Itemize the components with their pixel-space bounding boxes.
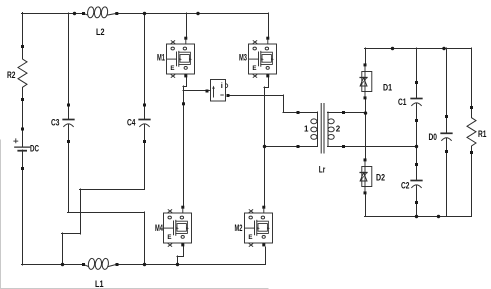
- wire D1 anode from output rail: [365, 48, 367, 65]
- node junction dot right leg at primary bottom: [263, 145, 266, 148]
- inductor L2: [82, 6, 118, 37]
- node junction dot output top rail right: [442, 47, 445, 50]
- transformer Lr: [297, 104, 346, 175]
- wire C4 bottom branch across: [80, 189, 145, 191]
- wire M4 source jog: [177, 256, 184, 258]
- svg-text:Lr: Lr: [319, 164, 326, 174]
- wire faint page edge bottom: [0, 288, 268, 289]
- svg-text:M3: M3: [239, 52, 247, 62]
- wire C4 branch step across: [62, 233, 81, 235]
- wire M3 source jog: [264, 87, 269, 89]
- transistor M3: [239, 37, 277, 78]
- wire tee to current meter input: [183, 90, 207, 92]
- node wire split marker on left bridge leg: [182, 102, 185, 105]
- wire left column between R2 and DC: [22, 99, 24, 129]
- wire M4 source to bottom rail: [177, 256, 179, 264]
- capacitor C1: [398, 81, 422, 122]
- wire drop from top rail to C3: [68, 13, 70, 105]
- node junction dot output top rail left: [391, 47, 394, 50]
- svg-text:D2: D2: [376, 172, 385, 182]
- wire M1 source down: [186, 76, 188, 87]
- wire C1 top: [416, 48, 418, 82]
- svg-text:1: 1: [304, 124, 309, 133]
- node junction dot secondary top at D1-D2 column: [364, 111, 367, 114]
- capacitor C3: [51, 104, 74, 144]
- diode D2: [360, 158, 385, 194]
- wire left bridge leg: [183, 86, 185, 208]
- wire current meter output down: [283, 95, 285, 113]
- node junction dot output bottom rail right: [437, 215, 440, 218]
- node junction dot top rail at C4: [143, 12, 146, 15]
- svg-text:DC: DC: [30, 144, 39, 154]
- wire bottom rail left segment: [22, 264, 85, 266]
- wire right leg tee to transformer primary bottom: [264, 146, 298, 148]
- svg-text:M1: M1: [157, 52, 165, 62]
- node junction dot secondary bottom at C1-C2 midpoint: [415, 145, 418, 148]
- svg-text:D0: D0: [429, 132, 438, 142]
- capacitor D0: [429, 115, 452, 153]
- svg-text:2: 2: [336, 124, 341, 133]
- wire M1 source jog: [183, 86, 187, 88]
- svg-text:R2: R2: [7, 70, 16, 80]
- svg-text:R1: R1: [478, 129, 487, 139]
- wire drop from top rail to M3 drain: [268, 13, 270, 39]
- node junction dot output bottom rail at C2: [415, 215, 418, 218]
- wire top rail left segment: [22, 13, 85, 15]
- wire C4 bottom branch down: [144, 141, 146, 190]
- node junction dot bottom rail M4 source: [176, 263, 179, 266]
- svg-text:C2: C2: [401, 180, 410, 190]
- wire to transformer primary top: [283, 112, 298, 114]
- svg-text:M2: M2: [235, 223, 243, 233]
- wire faint page edge left: [0, 140, 2, 289]
- wire D1 cathode to D2 anode: [365, 97, 367, 160]
- transistor M1: [157, 37, 195, 78]
- wire M3 source down: [268, 76, 270, 88]
- wire top rail right segment: [116, 13, 269, 15]
- wire M2 source drop: [265, 247, 267, 265]
- diode D1: [360, 63, 392, 99]
- wire left column top: [22, 13, 24, 47]
- svg-text:C1: C1: [398, 97, 407, 107]
- wire R1 bottom branch: [471, 152, 473, 217]
- transistor M2: [235, 206, 273, 247]
- node junction dot bottom rail C4 branch: [61, 263, 64, 266]
- wire drop from top rail to C4: [144, 13, 146, 105]
- wire C3 bottom branch to bottom rail: [144, 212, 146, 264]
- svg-text:L1: L1: [95, 279, 104, 289]
- node junction dot top rail near C3: [73, 12, 76, 15]
- wire C4 branch step down: [80, 189, 82, 234]
- wire output top rail: [365, 48, 472, 50]
- wire D0 top branch: [446, 48, 448, 116]
- svg-text:C3: C3: [51, 118, 60, 128]
- DC source battery: [14, 128, 40, 171]
- wire C3 bottom branch across: [68, 212, 145, 214]
- current measurement block U1: [206, 80, 230, 102]
- wire current meter output across: [228, 95, 284, 97]
- svg-text:M4: M4: [155, 223, 163, 233]
- wire C3 bottom branch down: [68, 141, 70, 213]
- wire D0 bottom branch: [446, 151, 448, 216]
- wire transformer secondary bottom to C1-C2 midpoint: [343, 146, 417, 148]
- inductor L1: [82, 258, 119, 289]
- transistor M4: [155, 206, 192, 247]
- svg-text:C4: C4: [127, 118, 136, 128]
- wire C1-C2 midpoint: [416, 120, 418, 164]
- wire drop from top rail to M1 drain: [186, 13, 188, 39]
- node junction dot bottom rail C3 branch: [143, 263, 146, 266]
- wire transformer secondary top to D1-D2 node: [343, 112, 366, 114]
- resistor R2: [7, 45, 27, 101]
- wire D2 bottom to output bottom rail: [365, 193, 367, 216]
- capacitor C4: [127, 104, 150, 144]
- wire C4 branch step to bottom rail: [62, 233, 64, 264]
- wire C2 bottom: [416, 202, 418, 216]
- wire R1 top branch: [471, 48, 473, 107]
- wire right bridge leg: [264, 87, 266, 208]
- resistor R1: [467, 106, 487, 154]
- svg-text:i: i: [221, 81, 223, 90]
- wire M4 source down: [183, 246, 185, 257]
- capacitor C2: [401, 163, 422, 204]
- wire output bottom rail: [365, 216, 472, 218]
- svg-text:D1: D1: [383, 83, 392, 93]
- wire left column DC down to bottom rail corner: [22, 168, 24, 265]
- svg-text:L2: L2: [96, 27, 105, 37]
- wire bottom rail mid segment: [116, 264, 266, 266]
- node junction dot top rail right of M1: [196, 12, 199, 15]
